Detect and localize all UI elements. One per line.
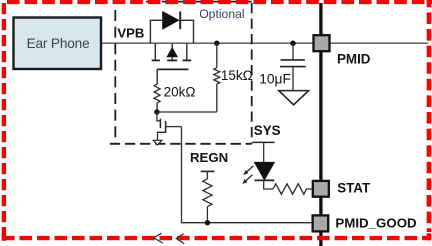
wire: SYS to LED anode: [263, 142, 265, 162]
svg-text:VPB: VPB: [117, 26, 144, 41]
pin PMID: [314, 35, 371, 66]
annotation arrow 1 (on red border): [154, 233, 163, 243]
svg-text:PMID: PMID: [337, 52, 371, 67]
wire: main IVPB/PMID net: [102, 42, 428, 44]
wire: gate to 20k resistor: [156, 69, 158, 84]
resistor (STAT series): [273, 184, 313, 194]
svg-text:SYS: SYS: [254, 123, 281, 138]
diode D1 (bypass): [163, 12, 181, 30]
junction node on main wire: [214, 41, 219, 46]
wire: junction to 15k bottom: [157, 111, 217, 113]
LED D2: [242, 162, 274, 184]
resistor REGN pull-up: [203, 171, 212, 222]
svg-text:20kΩ: 20kΩ: [164, 85, 196, 100]
wire: diode cathode branch: [180, 20, 193, 43]
wire: diode anode branch: [150, 20, 162, 43]
svg-text:REGN: REGN: [190, 150, 228, 165]
node label REGN: [190, 150, 228, 171]
transistor Q2 (PMID_GOOD open-drain FET): [153, 112, 181, 145]
wire: Q2 drain to PMID_GOOD rail: [182, 127, 313, 223]
resistor 20kOhm: [154, 84, 195, 112]
node label SYS: [253, 123, 281, 143]
capacitor 10uF: [259, 43, 306, 90]
block: Ear Phone: [14, 18, 102, 70]
transistor Q1 (PMOS pass FET): [152, 43, 192, 69]
ground: [279, 91, 309, 105]
svg-text:15kΩ: 15kΩ: [221, 68, 253, 83]
pin PMID_GOOD: [313, 215, 417, 231]
junction node (10uF tap): [290, 41, 295, 46]
pin STAT: [313, 181, 371, 197]
resistor 15kOhm: [214, 43, 253, 112]
svg-text:Optional: Optional: [199, 7, 244, 21]
IC boundary (thick vertical): [319, 3, 322, 246]
optional-circuit dashed box: [110, 2, 252, 144]
svg-text:10μF: 10μF: [259, 72, 291, 87]
annotation arrow 2 (on red border): [176, 234, 184, 244]
junction node (20k/15k/gate): [154, 109, 159, 114]
svg-text:Ear Phone: Ear Phone: [27, 36, 90, 51]
wire: LED cathode to STAT resistor: [264, 180, 273, 189]
svg-text:STAT: STAT: [337, 181, 371, 196]
junction node (REGN resistor / PMID_GOOD rail): [205, 220, 210, 225]
svg-text:PMID_GOOD: PMID_GOOD: [335, 216, 417, 231]
